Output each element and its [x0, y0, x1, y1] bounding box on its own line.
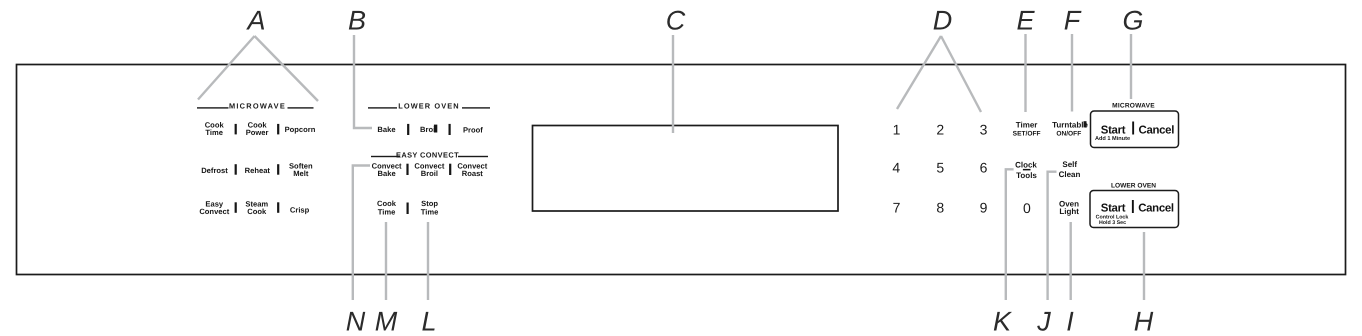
svg-text:M: M	[375, 306, 398, 336]
svg-text:7: 7	[893, 200, 901, 216]
leader line B	[354, 35, 372, 128]
svg-text:B: B	[348, 6, 366, 36]
leader line E	[1024, 34, 1026, 112]
svg-text:K: K	[993, 306, 1012, 336]
divider	[235, 164, 237, 175]
microwave start/cancel button	[1091, 111, 1179, 148]
divider	[277, 124, 279, 134]
svg-text:N: N	[346, 306, 366, 336]
svg-text:StopTime: StopTime	[421, 199, 439, 217]
svg-text:Tools: Tools	[1016, 171, 1037, 180]
svg-text:L: L	[421, 306, 436, 336]
svg-text:Add 1 Minute: Add 1 Minute	[1095, 135, 1130, 142]
leader line D	[897, 36, 981, 112]
leader line J	[1048, 172, 1057, 300]
svg-text:2: 2	[936, 122, 944, 138]
section header EASY CONVECT	[371, 151, 488, 160]
svg-text:Reheat: Reheat	[245, 166, 271, 175]
svg-text:LOWER OVEN: LOWER OVEN	[1111, 183, 1156, 190]
svg-text:MICROWAVE: MICROWAVE	[229, 102, 286, 111]
svg-text:Cancel: Cancel	[1139, 124, 1175, 136]
lower oven start/cancel button	[1090, 191, 1179, 228]
ink blot on Broil "il"	[434, 125, 437, 133]
leader line F	[1071, 34, 1073, 112]
divider	[277, 202, 279, 213]
svg-text:5: 5	[936, 160, 944, 176]
svg-text:A: A	[245, 6, 265, 36]
leader line N	[353, 166, 370, 301]
svg-text:8: 8	[936, 200, 944, 216]
svg-text:SteamCook: SteamCook	[245, 199, 268, 216]
svg-text:C: C	[666, 6, 686, 36]
svg-text:J: J	[1036, 306, 1051, 336]
divider	[277, 164, 279, 175]
leader line L	[427, 222, 429, 300]
divider	[235, 124, 237, 134]
svg-text:CookPower: CookPower	[246, 120, 269, 137]
ink blot on Turntable "l"	[1084, 121, 1087, 127]
svg-text:MICROWAVE: MICROWAVE	[1112, 103, 1155, 110]
svg-text:EASY CONVECT: EASY CONVECT	[396, 151, 459, 160]
svg-text:9: 9	[980, 200, 988, 216]
svg-text:Hold 3 Sec: Hold 3 Sec	[1099, 220, 1126, 226]
leader line M	[385, 222, 387, 300]
display window (callout C target)	[533, 126, 839, 212]
svg-text:Start: Start	[1101, 124, 1126, 136]
leader line C	[672, 35, 674, 133]
divider	[449, 124, 451, 135]
svg-text:CookTime: CookTime	[377, 199, 397, 217]
svg-text:I: I	[1066, 306, 1074, 336]
svg-text:Popcorn: Popcorn	[285, 125, 316, 134]
leader line G	[1130, 34, 1132, 99]
section header LOWER OVEN	[368, 102, 490, 111]
svg-text:Defrost: Defrost	[201, 166, 228, 175]
panel outline	[17, 65, 1346, 275]
svg-text:1: 1	[893, 122, 901, 138]
svg-text:LOWER OVEN: LOWER OVEN	[398, 102, 460, 111]
svg-text:CookTime: CookTime	[205, 120, 225, 137]
svg-text:D: D	[933, 6, 953, 36]
leader line I	[1069, 222, 1071, 300]
divider	[235, 202, 237, 213]
divider	[406, 164, 408, 175]
divider	[407, 203, 409, 215]
svg-text:Bake: Bake	[377, 125, 395, 134]
svg-text:6: 6	[980, 160, 988, 176]
svg-text:Proof: Proof	[463, 125, 483, 134]
svg-text:F: F	[1064, 6, 1082, 36]
svg-text:G: G	[1122, 6, 1143, 36]
svg-text:Start: Start	[1101, 203, 1126, 215]
divider	[407, 124, 409, 135]
leader line H	[1143, 232, 1145, 300]
svg-text:H: H	[1134, 306, 1154, 336]
button Clock Tools	[1015, 161, 1037, 181]
svg-text:3: 3	[980, 122, 988, 138]
divider	[449, 164, 451, 175]
svg-text:4: 4	[892, 160, 900, 176]
section header MICROWAVE	[197, 102, 314, 111]
svg-text:0: 0	[1023, 200, 1031, 216]
svg-text:Crisp: Crisp	[290, 206, 310, 215]
svg-text:TimerSET/OFF: TimerSET/OFF	[1013, 121, 1041, 138]
leader line K	[1006, 169, 1014, 300]
svg-text:OvenLight: OvenLight	[1059, 199, 1079, 216]
leader line A	[198, 36, 318, 101]
svg-text:Clock: Clock	[1015, 161, 1037, 170]
svg-text:E: E	[1016, 6, 1035, 36]
svg-text:Cancel: Cancel	[1138, 203, 1174, 215]
